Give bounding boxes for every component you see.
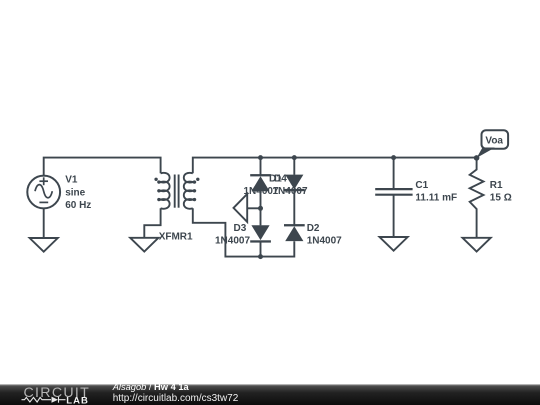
svg-text:D4: D4 [274, 173, 287, 184]
svg-text:LAB: LAB [66, 396, 89, 405]
svg-text:sine: sine [65, 187, 85, 198]
svg-text:Alsagob / Hw 4 1a: Alsagob / Hw 4 1a [112, 382, 190, 392]
svg-text:60 Hz: 60 Hz [65, 200, 91, 211]
svg-text:R1: R1 [490, 180, 503, 191]
svg-text:11.11 mF: 11.11 mF [415, 193, 457, 204]
svg-text:D2: D2 [307, 223, 320, 234]
svg-text:D3: D3 [234, 223, 247, 234]
svg-text:1N4007: 1N4007 [215, 235, 250, 246]
svg-text:1N4007: 1N4007 [273, 186, 308, 197]
svg-text:1N4007: 1N4007 [307, 235, 342, 246]
svg-text:XFMR1: XFMR1 [159, 232, 193, 243]
svg-text:Voa: Voa [485, 136, 503, 147]
svg-text:http://circuitlab.com/cs3tw72: http://circuitlab.com/cs3tw72 [113, 393, 239, 404]
svg-text:15 Ω: 15 Ω [490, 193, 512, 204]
svg-text:V1: V1 [65, 175, 78, 186]
svg-text:C1: C1 [415, 180, 428, 191]
